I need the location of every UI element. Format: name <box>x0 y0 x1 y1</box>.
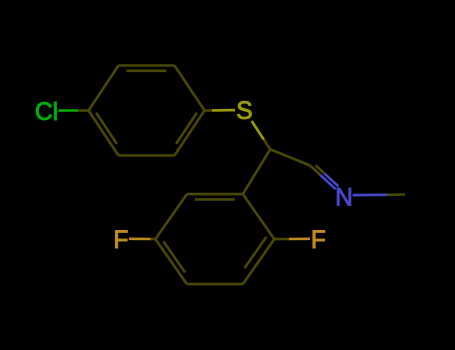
chlorophenyl ring edge C3-C4 <box>175 66 205 111</box>
svg-text:F: F <box>311 227 326 254</box>
bond Cl-C1 carbon half <box>78 109 88 112</box>
chlorophenyl ring edge C5-C6 <box>119 154 175 157</box>
imine double bond C8=N main line carbon half <box>310 166 320 176</box>
difluorophenyl ring edge C13-C14 (double outer) <box>243 239 274 284</box>
difluorophenyl ring edge C13-C14 inner line <box>245 237 267 268</box>
bond C14-F carbon half <box>274 238 289 241</box>
bond S-C7 carbon half <box>264 140 270 150</box>
chlorophenyl ring edge C4-C5 inner line <box>176 113 197 144</box>
difluorophenyl ring edge C11-C12 (double outer) <box>155 239 187 284</box>
chlorophenyl ring edge C2-C3 (double outer) <box>119 64 175 67</box>
chlorophenyl ring edge C6-C1 inner line <box>96 113 117 144</box>
bond C4-S colored half (olive) <box>212 109 235 112</box>
chlorophenyl ring edge C6-C1 (double outer) <box>89 111 119 156</box>
chlorophenyl ring edge C2-C3 inner line <box>127 70 167 73</box>
bond N-CH3 carbon half <box>387 193 405 196</box>
difluorophenyl ring edge C14-C9 <box>243 194 274 239</box>
chlorophenyl ring edge C4-C5 (double outer) <box>175 111 205 156</box>
bond C11-F carbon half <box>151 238 156 241</box>
imine double bond C8=N second line blue half <box>325 174 339 187</box>
difluorophenyl ring edge C12-C13 <box>187 283 243 286</box>
bond C11-F colored half (gold) <box>129 238 151 241</box>
bond Cl-C1 colored half (green) <box>59 109 79 112</box>
difluorophenyl ring edge C11-C12 inner line <box>163 241 185 272</box>
chlorophenyl ring edge C1-C2 <box>89 66 119 111</box>
bond S-C7 colored half (olive) <box>252 121 264 140</box>
bond C7-C8 (to imine carbon) <box>270 149 310 165</box>
imine double bond C8=N second line carbon half <box>316 165 325 173</box>
svg-text:N: N <box>335 184 353 211</box>
difluorophenyl ring edge C9-C10 inner line <box>195 198 235 201</box>
svg-text:F: F <box>113 227 128 254</box>
imine double bond C8=N main line blue half <box>320 175 335 189</box>
svg-text:Cl: Cl <box>35 99 58 126</box>
bond C7-C9 (to difluorophenyl ring) <box>243 149 270 194</box>
bond C4-S carbon half <box>205 109 213 112</box>
difluorophenyl ring edge C9-C10 (top, double outer) <box>187 193 243 196</box>
bond C14-F colored half (gold) <box>289 238 310 241</box>
svg-text:S: S <box>236 98 252 125</box>
bond N-CH3 colored half (blue) <box>353 194 388 197</box>
difluorophenyl ring edge C10-C11 <box>155 194 187 239</box>
